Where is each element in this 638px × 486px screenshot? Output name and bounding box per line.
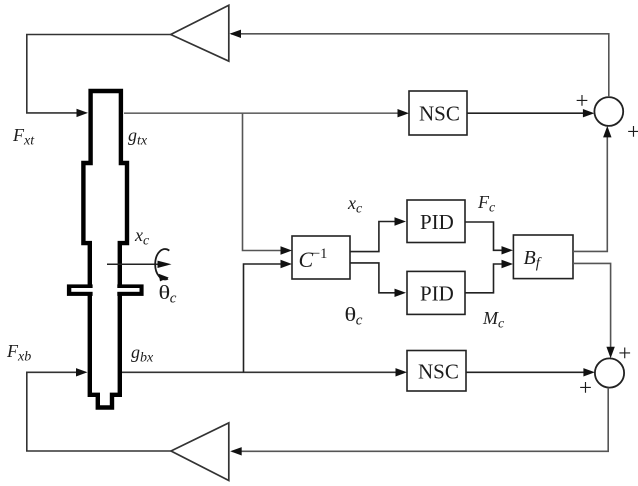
block C^-1 [292,236,350,279]
block NSC bottom [407,351,466,392]
wire branch to C^-1 upper input [243,113,293,255]
svg-text:c: c [170,291,177,307]
tool right fin (flange) [114,284,144,296]
wire B_f to S2 top input [573,263,615,358]
block PID top [407,200,465,243]
wire g_tx line (tool to NSC top) [124,109,409,117]
wire branch g_bx to C^-1 lower input [244,260,293,373]
theta_c rotation arrow [155,249,169,281]
summing junction top [576,88,638,144]
amplifier triangle top [171,5,229,61]
wire NSC top to S1 [467,109,594,117]
wire B_f to S1 bottom input [573,126,612,251]
svg-text:+: + [576,88,589,113]
wire NSC bottom to S2 [466,368,595,376]
wire PID bottom to B_f lower input [465,260,513,293]
amplifier triangle bottom [171,423,229,481]
tool structure (boring bar body) [83,91,127,408]
svg-text:θ: θ [345,303,357,325]
svg-text:PID: PID [420,282,454,306]
block B_f [513,235,573,279]
svg-text:+: + [579,375,592,400]
svg-text:c: c [356,313,363,329]
svg-text:NSC: NSC [419,102,460,126]
wire PID top to B_f upper input [465,222,513,255]
svg-text:NSC: NSC [418,360,459,384]
summing junction bottom [579,341,631,400]
tool left fin (flange) [67,284,95,296]
wire amplifier bottom output to F_xb input [27,368,171,451]
block PID bottom [407,271,465,314]
svg-text:PID: PID [420,210,454,234]
svg-text:+: + [627,119,638,144]
svg-text:θ: θ [159,281,171,303]
wire S2 bottom to amplifier bottom input [230,388,608,456]
wire g_bx line (tool to NSC bottom) [122,368,407,376]
x_c axis arrow [107,261,172,268]
block NSC top [409,91,467,135]
wire C^-1 lower output to PID bottom [350,263,406,297]
wire S1 top to amplifier top input [230,30,609,98]
svg-text:+: + [618,341,631,366]
wire amplifier top output to F_xt input [27,35,171,118]
wire C^-1 upper output to PID top [350,217,406,251]
svg-text:−1: −1 [312,246,327,262]
